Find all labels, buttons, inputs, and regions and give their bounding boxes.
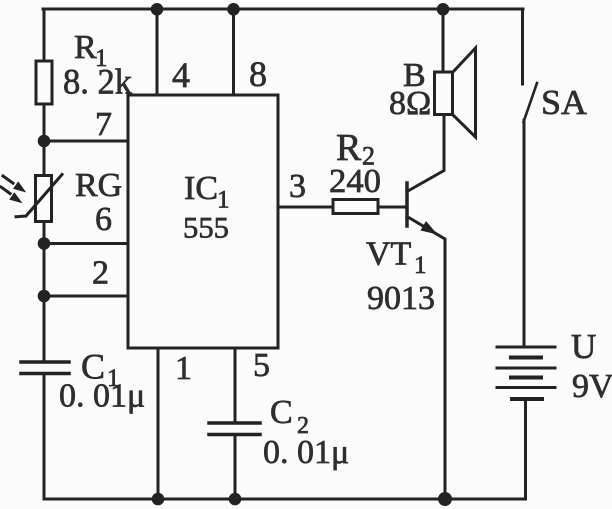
wire bottom rail bbox=[44, 498, 526, 501]
switch SA lower wire to battery bbox=[523, 120, 526, 346]
svg-text:2: 2 bbox=[92, 255, 109, 292]
svg-text:RG: RG bbox=[75, 167, 122, 204]
wire pin 4 bbox=[156, 9, 159, 95]
svg-text:7: 7 bbox=[95, 106, 112, 143]
speaker B bbox=[435, 48, 476, 137]
label C1 bbox=[81, 347, 120, 393]
label C2 bbox=[270, 394, 309, 439]
resistor R2 bbox=[333, 200, 378, 214]
resistor R1 bbox=[36, 61, 52, 104]
node dot emitter bottom bbox=[438, 492, 452, 506]
node dot pin2 bbox=[38, 290, 51, 303]
svg-text:U: U bbox=[571, 327, 596, 366]
capacitor C1 bbox=[21, 362, 69, 374]
svg-text:1: 1 bbox=[217, 187, 230, 214]
svg-text:6: 6 bbox=[95, 201, 112, 238]
svg-text:8Ω: 8Ω bbox=[389, 85, 431, 122]
wire pin 5 lower bbox=[234, 436, 237, 499]
svg-text:5: 5 bbox=[253, 347, 270, 384]
svg-text:SA: SA bbox=[541, 83, 588, 122]
svg-text:0. 01μ: 0. 01μ bbox=[263, 434, 349, 471]
wire pin 3 bbox=[278, 206, 333, 209]
node dot pin8 top bbox=[227, 3, 240, 16]
op-amp IC1 555 box bbox=[128, 95, 278, 348]
label R2 bbox=[336, 127, 375, 171]
svg-text:C: C bbox=[270, 394, 293, 431]
node dot pin7 bbox=[38, 135, 51, 148]
wire pin 1 bbox=[157, 348, 160, 499]
svg-text:555: 555 bbox=[183, 212, 229, 245]
wire left rail upper (top rail to R1) bbox=[43, 9, 46, 61]
label VT1 bbox=[366, 236, 427, 280]
light arrow 1 bbox=[3, 176, 26, 193]
node dot speaker top bbox=[437, 3, 450, 16]
svg-text:0. 01μ: 0. 01μ bbox=[59, 378, 145, 415]
node dot pin6 bbox=[38, 237, 51, 250]
wire top rail bbox=[43, 8, 523, 11]
wire C1 to bottom rail bbox=[43, 375, 46, 499]
svg-text:9013: 9013 bbox=[367, 280, 435, 317]
wire pin 2 bbox=[44, 295, 128, 298]
svg-text:IC: IC bbox=[184, 170, 218, 207]
switch SA upper wire bbox=[521, 9, 524, 84]
switch SA blade bbox=[524, 83, 538, 122]
label IC1 bbox=[184, 170, 230, 214]
svg-text:8. 2k: 8. 2k bbox=[63, 62, 132, 102]
wire R2 to base bbox=[378, 206, 406, 209]
wire pin 8 bbox=[232, 9, 235, 95]
svg-text:3: 3 bbox=[289, 168, 306, 205]
label R1 bbox=[74, 29, 108, 72]
svg-text:1: 1 bbox=[175, 350, 192, 387]
node dot pin1 bottom bbox=[152, 493, 165, 506]
svg-text:VT: VT bbox=[366, 236, 412, 273]
capacitor C2 bbox=[209, 423, 260, 435]
wire R1 to node pin7 bbox=[43, 104, 46, 176]
wire pin 5 upper bbox=[234, 348, 237, 422]
light arrow 2 bbox=[1, 187, 23, 203]
speaker B wire from top rail bbox=[442, 9, 445, 72]
wire battery to bottom rail bbox=[524, 399, 527, 499]
svg-text:R: R bbox=[74, 29, 97, 66]
svg-text:1: 1 bbox=[414, 252, 427, 279]
svg-text:240: 240 bbox=[329, 163, 381, 200]
photoresistor RG bbox=[16, 175, 62, 222]
svg-text:8: 8 bbox=[249, 54, 267, 94]
svg-text:9V: 9V bbox=[572, 368, 612, 405]
wire pin 7 bbox=[44, 140, 128, 143]
node dot pin5 bottom bbox=[229, 493, 242, 506]
wire RG to C1 bbox=[43, 222, 46, 361]
node dot pin4 top bbox=[151, 3, 164, 16]
svg-text:4: 4 bbox=[172, 55, 190, 95]
wire pin 6 bbox=[44, 242, 128, 245]
battery U bbox=[497, 347, 555, 399]
transistor VT1 bbox=[407, 115, 445, 500]
